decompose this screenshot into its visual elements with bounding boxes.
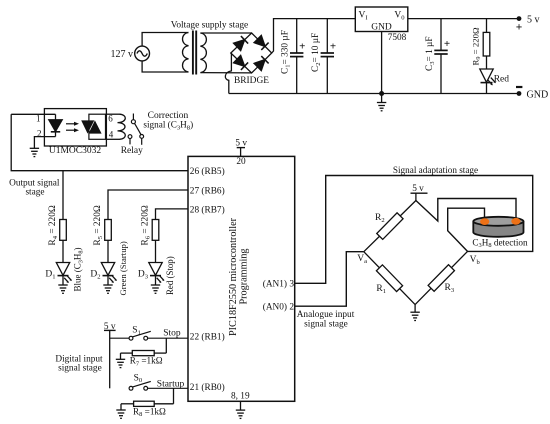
svg-text:signal stage: signal stage — [304, 320, 348, 330]
triac inner box — [89, 114, 106, 139]
svg-text:Blue (C3H8): Blue (C3H8) — [73, 247, 85, 291]
svg-text:Analogue input: Analogue input — [297, 310, 355, 320]
svg-text:2: 2 — [37, 128, 42, 138]
transformer T1 primary — [183, 33, 189, 73]
svg-text:26 (RB5): 26 (RB5) — [190, 166, 225, 177]
transformer T1 secondary — [200, 33, 206, 73]
svg-text:Red (Stop): Red (Stop) — [165, 256, 175, 295]
svg-text:21 (RB0): 21 (RB0) — [190, 382, 225, 393]
wire sensor to Vb — [448, 208, 485, 251]
resistor R3 — [428, 265, 454, 292]
ground bridge bottom — [414, 305, 416, 313]
svg-text:PIC18F2550 microcontroller: PIC18F2550 microcontroller — [228, 217, 239, 336]
wire regulator GND pin — [381, 32, 383, 94]
junction dot — [379, 91, 384, 96]
relay switch — [128, 114, 144, 145]
ground under regulator — [381, 94, 383, 103]
resistor R2 — [377, 213, 403, 240]
svg-text:Programming: Programming — [239, 248, 250, 304]
svg-text:127 v: 127 v — [111, 49, 134, 60]
resistor R4 — [60, 171, 67, 263]
svg-text:(AN0) 2: (AN0) 2 — [263, 302, 295, 313]
svg-text:R9 = 220Ω: R9 = 220Ω — [471, 27, 483, 66]
svg-text:R4 = 220Ω: R4 = 220Ω — [48, 205, 59, 245]
svg-text:1: 1 — [36, 114, 41, 124]
triac — [81, 120, 94, 133]
wire bridge left vertex hop to ground rail — [225, 53, 231, 94]
wire RB7 — [156, 209, 189, 220]
svg-text:6: 6 — [108, 114, 113, 124]
svg-text:27 (RB6): 27 (RB6) — [190, 186, 225, 197]
switch S1 — [110, 331, 188, 340]
coupling arrows — [66, 122, 79, 132]
switch S0 — [129, 381, 188, 390]
bridge rectifier diamond — [231, 33, 272, 73]
svg-text:Green (Startup): Green (Startup) — [118, 241, 128, 295]
wire top node to sensor — [416, 199, 516, 222]
diode bridge bottom-right — [254, 56, 269, 71]
diode bridge top-right — [254, 35, 269, 50]
svg-text:R5 = 220Ω: R5 = 220Ω — [93, 205, 104, 245]
wire AN0 to Va — [295, 252, 364, 307]
wire 5v down — [109, 330, 111, 388]
resistor R1 — [376, 265, 402, 292]
wire source loop — [142, 33, 188, 73]
diode bridge top-left — [234, 36, 249, 51]
svg-text:4: 4 — [109, 130, 114, 140]
LED D1 — [56, 263, 72, 286]
wheatstone bridge arms — [364, 201, 468, 305]
opto LED — [49, 114, 62, 136]
capacitor C2 — [321, 19, 334, 94]
ground D3 — [151, 285, 160, 293]
ground R8 — [116, 410, 125, 418]
svg-text:+: + — [444, 38, 450, 50]
pin 6 wire — [106, 113, 120, 115]
ground pin 2 — [30, 148, 39, 156]
pin 1 wire — [11, 113, 55, 115]
resistor R5 — [105, 220, 112, 263]
svg-text:28 (RB7): 28 (RB7) — [190, 205, 225, 216]
ground R7 — [116, 359, 125, 367]
svg-text:R6 = 220Ω: R6 = 220Ω — [141, 205, 152, 245]
svg-text:Signal adaptation stage: Signal adaptation stage — [393, 165, 478, 175]
optocoupler U1 box — [44, 109, 106, 146]
pin 2 wire — [34, 137, 55, 149]
svg-text:Startup: Startup — [157, 380, 185, 390]
ground D1 — [58, 285, 67, 293]
svg-text:C2= 10 µF: C2= 10 µF — [311, 33, 322, 72]
svg-text:20: 20 — [236, 157, 246, 167]
svg-text:5 v: 5 v — [235, 138, 247, 148]
svg-text:U1MOC3032: U1MOC3032 — [49, 146, 102, 156]
C3H8 sensor — [473, 217, 523, 237]
svg-text:(AN1) 3: (AN1) 3 — [263, 279, 295, 290]
svg-text:Red: Red — [494, 75, 510, 85]
svg-text:8, 19: 8, 19 — [231, 391, 250, 401]
AC source 127 v — [135, 46, 150, 61]
ground pin 8,19 — [240, 401, 242, 410]
wire bottom ground rail — [229, 93, 519, 95]
wire RB6 — [108, 190, 188, 220]
svg-text:Voltage supply stage: Voltage supply stage — [171, 21, 248, 31]
LED D2 — [101, 263, 117, 286]
wire top rail from regulator to 5v — [408, 18, 519, 20]
relay coil — [118, 114, 126, 139]
svg-text:5 v: 5 v — [412, 184, 424, 194]
ground D2 — [103, 285, 112, 293]
pin 4 wire — [106, 138, 120, 140]
GND terminal — [517, 91, 522, 96]
diode bridge bottom-left — [234, 55, 249, 70]
resistor R8 — [121, 388, 174, 410]
svg-text:+: + — [330, 41, 336, 53]
wire opto pin1 to RB5 — [11, 114, 188, 170]
capacitor C3 — [434, 19, 447, 94]
svg-text:C3= 1 µF: C3= 1 µF — [425, 36, 436, 71]
svg-text:+: + — [516, 22, 523, 34]
svg-text:GND: GND — [371, 23, 392, 33]
svg-text:signal stage: signal stage — [58, 364, 102, 374]
LED red (supply) — [480, 69, 496, 94]
svg-text:BRIDGE: BRIDGE — [234, 76, 269, 86]
svg-text:GND: GND — [527, 90, 549, 101]
transformer core — [193, 31, 196, 75]
resistor R6 — [152, 220, 159, 263]
svg-text:+: + — [299, 41, 305, 53]
wire AN1 to top rail — [295, 176, 533, 284]
MCU name text — [228, 217, 239, 336]
resistor R7 — [121, 338, 167, 359]
svg-text:5 v: 5 v — [527, 15, 540, 26]
svg-text:Stop: Stop — [163, 328, 181, 338]
resistor R9 — [483, 19, 490, 69]
svg-text:stage: stage — [25, 188, 44, 198]
LED D3 — [149, 263, 165, 286]
capacitor C1 — [290, 19, 303, 94]
wire secondary to bridge — [200, 33, 251, 73]
5v terminal — [517, 16, 522, 21]
regulator U2 7508 — [355, 7, 408, 32]
svg-text:22 (RB1): 22 (RB1) — [190, 332, 225, 343]
svg-text:Relay: Relay — [121, 146, 143, 156]
wire bridge right vertex to top rail — [272, 19, 356, 53]
svg-text:7508: 7508 — [388, 33, 407, 43]
